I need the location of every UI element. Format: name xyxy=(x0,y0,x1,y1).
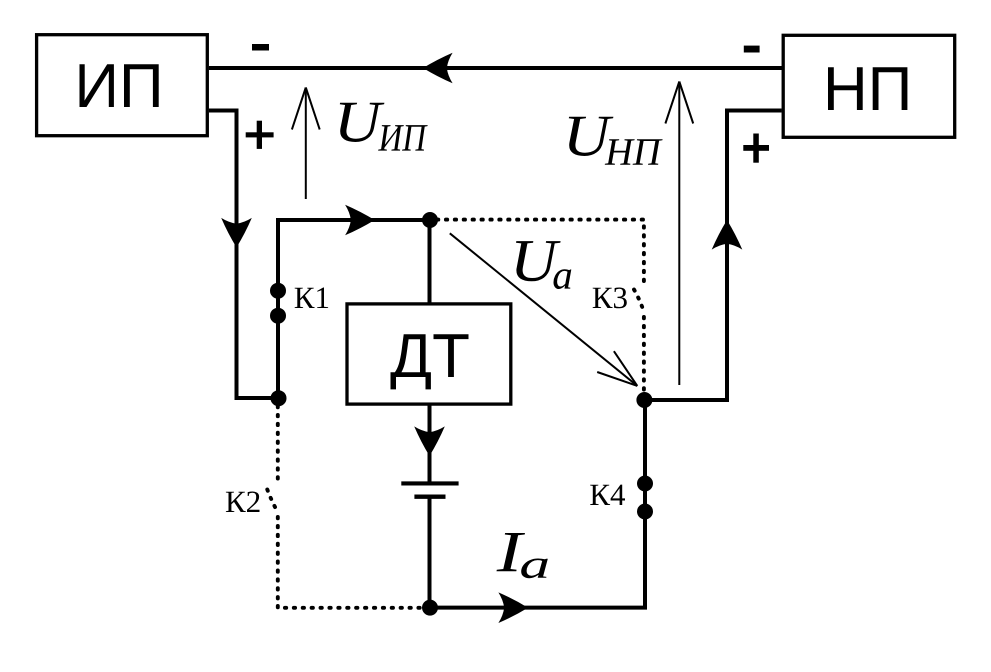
node C junction dot xyxy=(422,600,438,616)
arrow left on top wire xyxy=(423,53,453,84)
dotted wire node B to K2 xyxy=(276,406,280,483)
arrow right on bottom wire xyxy=(498,592,528,623)
block ИП xyxy=(37,35,208,136)
switch K2 blade xyxy=(267,490,277,513)
label I a xyxy=(497,533,548,578)
wire battery to node C xyxy=(428,499,432,608)
node A junction dot xyxy=(422,212,438,228)
label U НП xyxy=(569,117,663,165)
dotted wire node A to K3 top xyxy=(437,220,644,283)
dotted wire K3 to node D xyxy=(642,317,646,391)
wire node A to ДТ xyxy=(428,220,432,303)
voltage arrow U_ИП xyxy=(292,88,320,200)
minus label at НП xyxy=(744,46,760,53)
switch K4 contact dots xyxy=(637,476,653,492)
battery cell plate short xyxy=(414,495,445,499)
label K1 xyxy=(295,288,328,309)
plus label at НП xyxy=(743,134,769,163)
dotted wire K2 to node C xyxy=(278,517,421,608)
switch K3 blade xyxy=(634,290,644,313)
minus label at ИП xyxy=(252,44,269,51)
arrow up on right wire xyxy=(712,220,743,250)
label K3 xyxy=(593,288,627,309)
arrow down below ДТ xyxy=(414,426,445,456)
wire node D to НП plus xyxy=(644,111,781,401)
block НП xyxy=(783,35,955,137)
arrow right on K1 branch wire xyxy=(345,205,375,236)
node D junction dot xyxy=(636,392,652,408)
voltage arrow U_a diagonal xyxy=(450,233,638,386)
battery cell plate long xyxy=(401,481,458,485)
wire ДТ bottom to battery xyxy=(428,405,432,482)
plus label at ИП xyxy=(246,121,274,149)
arrow down on left wire xyxy=(221,218,252,248)
voltage arrow U_НП xyxy=(665,82,693,386)
wire ИП plus down to node B xyxy=(209,111,272,399)
label K2 xyxy=(226,492,260,513)
node B junction dot xyxy=(271,390,287,406)
switch K1 contact dots xyxy=(270,283,286,299)
wire bottom node C to K4 branch up to node D xyxy=(430,400,645,610)
label U a xyxy=(516,241,571,289)
wire K1 branch corner to node A xyxy=(276,218,430,398)
wire top ИП to НП xyxy=(209,66,782,70)
label K4 xyxy=(590,485,625,505)
block ДТ xyxy=(347,304,511,404)
label U ИП xyxy=(340,103,428,151)
